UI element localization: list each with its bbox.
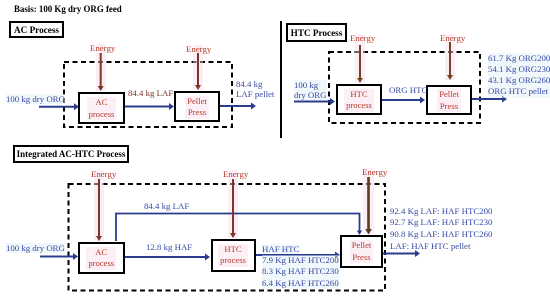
label energy A1 [90,43,115,53]
label ORG HTC [389,85,427,95]
labels integrated outputs [390,206,492,253]
energy arrow A2 [197,53,199,86]
wire out HTC pellet [472,98,502,100]
label 12.8 kg HAF [146,242,192,252]
energy arrow H2 [449,42,451,76]
pink halo energy I3 [363,168,374,234]
pink halo energy H2 [445,34,455,80]
wire AC to Pellet [125,106,169,108]
label HAF HTC [262,244,299,254]
label energy I1 [91,169,116,179]
energy arrow I2 [232,179,234,234]
label energy A2 [186,44,211,54]
divider line [280,21,282,138]
wire HTC to Pellet integrated [256,254,336,256]
energy arrow H1 [359,45,361,79]
wire out integrated [383,253,415,255]
label energy H2 [440,33,465,43]
title basis [14,4,122,14]
label 100 kg dry ORG (top-right) [294,80,327,100]
label energy H1 [350,33,375,43]
dashed box HTC section [329,52,480,123]
label 84.4 kg LAF (bottom) [144,201,189,211]
pink halo energy A1 [96,44,106,91]
pink halo energy I2 [228,170,238,238]
box Pellet Press (bottom) [340,235,383,268]
box Pellet Press (top-right) [426,85,472,116]
dashed box AC section [64,62,232,127]
wire in integrated [40,256,73,258]
box AC process (top) [78,92,125,124]
wire in AC [39,106,74,108]
label 84.4 kg LAF (top-left, dark red) [128,88,173,98]
wire HTC to Pellet [382,99,420,101]
box Pellet Press (top-left) [174,91,220,122]
section label Integrated AC-HTC Process [13,145,129,163]
dashed box integrated section [69,184,386,291]
box AC process (bottom) [78,242,125,275]
energy arrow I3 [367,177,370,230]
pink halo energy H1 [355,34,365,83]
box HTC process (top-right) [336,84,382,115]
label energy I3 [362,167,387,177]
wire in HTC [294,101,330,103]
labels HTC outputs [488,53,550,98]
wire out AC pellet [220,105,251,107]
section label HTC Process [286,23,347,42]
labels HAF HTC values [262,255,339,289]
wire AC to HTC integrated [125,256,206,258]
energy arrow I1 [98,179,100,237]
label 100 kg dry ORG (top-left) [6,94,65,104]
label 84.4 kg LAF pellet (out) [236,79,274,99]
label 100 kg dry ORG (bottom) [6,243,65,253]
pink halo energy I1 [94,170,104,241]
label energy I2 [223,169,248,179]
wire LAF bypass route [116,214,360,242]
section label AC Process [9,21,64,38]
energy arrow A1 [100,53,102,87]
pink halo energy A2 [193,45,203,90]
box HTC process (bottom) [211,239,256,273]
